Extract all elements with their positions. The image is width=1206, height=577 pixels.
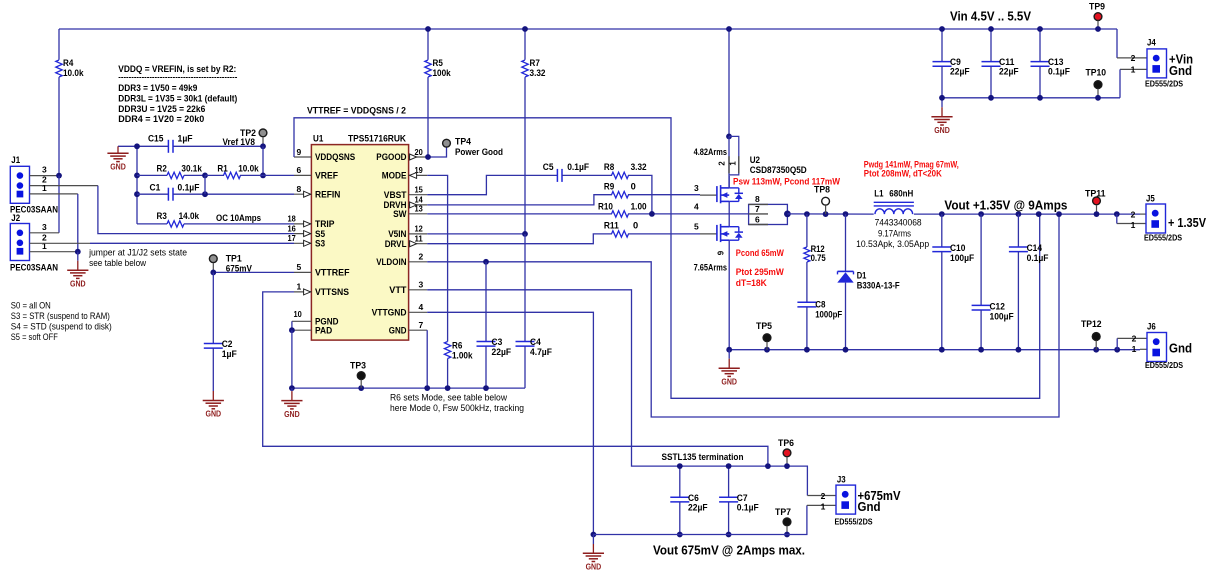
ground [941, 98, 943, 108]
svg-text:1: 1 [1132, 344, 1137, 354]
resistor R7 [524, 29, 526, 60]
wire: Vin to J4 [1116, 29, 1118, 58]
svg-text:DDR3L = 1V35 = 30k1 (default): DDR3L = 1V35 = 30k1 (default) [118, 93, 237, 103]
svg-text:2: 2 [419, 252, 424, 262]
svg-text:R7: R7 [530, 58, 540, 68]
svg-text:1.00: 1.00 [631, 201, 647, 211]
wire: power gnd rail [729, 349, 1140, 351]
svg-text:8: 8 [297, 184, 302, 194]
svg-text:3: 3 [419, 280, 424, 290]
ground [77, 252, 79, 261]
svg-text:0.1µF: 0.1µF [737, 503, 759, 513]
svg-text:Vref 1V8: Vref 1V8 [223, 137, 256, 147]
svg-text:TP6: TP6 [778, 438, 794, 448]
resistor R12 [806, 214, 808, 247]
svg-text:C6: C6 [688, 493, 699, 503]
svg-text:J6: J6 [1147, 322, 1156, 332]
U1 pin 12 V5IN [409, 233, 428, 235]
svg-text:C5: C5 [543, 162, 554, 172]
capacitor C5 [556, 169, 558, 182]
svg-text:1.00k: 1.00k [452, 350, 473, 360]
svg-text:0: 0 [631, 182, 636, 192]
svg-text:0.1µF: 0.1µF [1027, 253, 1049, 263]
U1 pin 11 DRVL [409, 243, 428, 245]
svg-text:dT=18K: dT=18K [736, 278, 768, 288]
svg-text:+ 1.35V: + 1.35V [1168, 215, 1206, 230]
U2 SW pins 8/7/6 box [749, 204, 788, 224]
svg-text:2: 2 [821, 491, 826, 501]
svg-text:6: 6 [297, 165, 302, 175]
svg-text:jumper at J1/J2 sets state: jumper at J1/J2 sets state [88, 247, 187, 257]
svg-text:R3: R3 [157, 211, 167, 221]
wire: U1 analog gnd rail [292, 330, 525, 388]
svg-text:9: 9 [717, 250, 726, 255]
svg-text:C10: C10 [950, 243, 965, 253]
svg-text:14.0k: 14.0k [179, 211, 200, 221]
wire: J4 pin1 to gnd rail [1120, 68, 1147, 70]
svg-text:U1: U1 [313, 134, 323, 144]
svg-text:3: 3 [42, 165, 47, 175]
svg-text:S5 = soft OFF: S5 = soft OFF [11, 332, 58, 342]
resistor R4 [58, 29, 60, 60]
wire: PGOOD to TP4 [427, 147, 446, 157]
wire: GND pin 7 drop [426, 330, 428, 388]
svg-text:15: 15 [415, 185, 424, 195]
svg-text:GND: GND [721, 377, 737, 386]
svg-text:DRVL: DRVL [385, 239, 407, 249]
svg-text:TP9: TP9 [1089, 2, 1105, 12]
svg-text:4: 4 [419, 302, 424, 312]
svg-text:VBST: VBST [384, 190, 407, 200]
svg-text:1µF: 1µF [222, 349, 237, 359]
svg-text:100µF: 100µF [990, 311, 1014, 321]
svg-text:4: 4 [694, 202, 699, 212]
transistor Q-low of U2 [700, 233, 718, 235]
resistor R2 [137, 174, 167, 176]
svg-text:B330A-13-F: B330A-13-F [857, 281, 901, 291]
svg-text:J2: J2 [11, 213, 20, 223]
svg-text:VDDQSNS: VDDQSNS [315, 152, 355, 162]
svg-text:VREF: VREF [315, 171, 338, 181]
svg-text:1µF: 1µF [178, 134, 193, 144]
svg-text:C7: C7 [737, 493, 748, 503]
svg-text:10: 10 [294, 309, 303, 319]
capacitor C14 [1017, 214, 1019, 247]
U1 pin 5 VTTREF [294, 271, 311, 273]
svg-text:R2: R2 [157, 164, 167, 174]
svg-text:C13: C13 [1048, 57, 1063, 67]
connector J5 [1117, 223, 1146, 225]
svg-text:7443340068: 7443340068 [875, 218, 922, 228]
svg-text:TP1: TP1 [226, 254, 242, 264]
svg-text:22µF: 22µF [492, 347, 512, 357]
svg-text:OC 10Amps: OC 10Amps [216, 213, 261, 223]
svg-text:C4: C4 [530, 337, 542, 347]
svg-text:TRIP: TRIP [315, 219, 335, 229]
wire: Vin gnd return rail [942, 97, 1120, 99]
svg-text:VTTREF: VTTREF [315, 268, 350, 278]
resistor R10 [612, 211, 629, 217]
test point TP3 [357, 372, 365, 380]
svg-text:C11: C11 [999, 57, 1014, 67]
svg-text:GND: GND [70, 279, 86, 288]
svg-text:16: 16 [288, 223, 297, 233]
svg-text:V5IN: V5IN [388, 229, 407, 239]
wire: J2 pin1 to gnd [30, 251, 78, 253]
wire: VTTSNS sense [263, 292, 768, 466]
svg-text:0.1µF: 0.1µF [178, 183, 200, 193]
svg-text:C9: C9 [950, 57, 961, 67]
svg-text:R8: R8 [604, 162, 614, 172]
ground [291, 388, 293, 391]
resistor R6 [444, 342, 450, 359]
svg-text:5: 5 [297, 262, 302, 272]
capacitor C1 [137, 193, 168, 195]
svg-text:REFIN: REFIN [315, 189, 341, 199]
svg-text:VTT: VTT [389, 285, 407, 295]
svg-text:R11: R11 [604, 221, 619, 231]
ground [728, 350, 730, 359]
svg-text:17: 17 [288, 233, 297, 243]
svg-text:here Mode 0, Fsw 500kHz, track: here Mode 0, Fsw 500kHz, tracking [390, 403, 524, 413]
svg-text:10.53Apk, 3.05App: 10.53Apk, 3.05App [856, 239, 929, 249]
svg-text:22µF: 22µF [999, 67, 1019, 77]
U1 pin 18 TRIP [294, 223, 311, 225]
capacitor C3 [485, 262, 487, 342]
svg-text:2: 2 [1132, 334, 1137, 344]
svg-text:TP5: TP5 [756, 321, 772, 331]
U1 pin 20 PGOOD [409, 156, 428, 158]
svg-text:9: 9 [297, 147, 302, 157]
svg-text:C14: C14 [1027, 243, 1043, 253]
svg-text:TP10: TP10 [1086, 68, 1107, 78]
svg-text:Gnd: Gnd [1169, 341, 1192, 356]
capacitor C4 [524, 234, 526, 342]
wire: VDDQSNS sense loop [294, 118, 1040, 399]
U1 pin 15 VBST [409, 194, 428, 196]
svg-text:1000pF: 1000pF [815, 309, 843, 319]
svg-text:R6 sets Mode, see table below: R6 sets Mode, see table below [390, 393, 507, 403]
resistor R3 [137, 223, 167, 225]
svg-text:1: 1 [1131, 220, 1136, 230]
svg-text:Gnd: Gnd [1169, 63, 1192, 78]
capacitor C12 [980, 214, 982, 305]
node REFIN bus [136, 146, 138, 224]
svg-text:GND: GND [284, 410, 300, 419]
svg-text:R10: R10 [598, 201, 613, 211]
wire: termination gnd rail [593, 505, 807, 534]
svg-text:R4: R4 [63, 58, 74, 68]
svg-text:ED555/2DS: ED555/2DS [1144, 234, 1183, 243]
svg-text:U2: U2 [750, 155, 760, 165]
svg-text:TP7: TP7 [775, 507, 791, 517]
svg-text:GND: GND [389, 325, 407, 335]
svg-text:L1: L1 [874, 189, 883, 199]
svg-text:2: 2 [1131, 210, 1136, 220]
svg-text:Vin 4.5V .. 5.5V: Vin 4.5V .. 5.5V [950, 9, 1031, 24]
transistor Q-high of U2 [700, 194, 718, 196]
resistor R8 [612, 172, 629, 178]
wire: J1 pin2 to S5 [30, 185, 98, 187]
svg-text:J5: J5 [1146, 194, 1155, 204]
wire: J2 pin2 to S3 [30, 242, 91, 244]
svg-text:Gnd: Gnd [858, 499, 881, 514]
U1 pin 1 VTTSNS [294, 291, 311, 293]
svg-text:Ptot 208mW, dT<20K: Ptot 208mW, dT<20K [864, 169, 943, 179]
capacitor C7 [728, 466, 730, 497]
svg-text:PAD: PAD [315, 325, 332, 335]
U1 PGND/PAD stubs [292, 320, 312, 322]
svg-text:C3: C3 [492, 337, 503, 347]
svg-text:0.1µF: 0.1µF [1048, 67, 1070, 77]
svg-text:100µF: 100µF [950, 253, 974, 263]
wire: VREF to pin 6 [263, 174, 294, 176]
svg-text:C1: C1 [150, 183, 161, 193]
capacitor C13 [1039, 29, 1041, 62]
svg-text:7.65Arms: 7.65Arms [694, 263, 727, 273]
svg-text:J4: J4 [1147, 38, 1157, 48]
svg-text:GND: GND [206, 410, 222, 419]
wire: SW node [427, 213, 612, 215]
capacitor C15 [167, 140, 169, 153]
junction dots 5V rail [425, 26, 431, 32]
svg-text:13: 13 [415, 204, 424, 214]
svg-text:C8: C8 [815, 300, 825, 310]
svg-text:GND: GND [934, 126, 950, 135]
wire: 5V input top rail [59, 28, 1117, 30]
wire: SW to L1 [787, 213, 873, 215]
svg-text:TP12: TP12 [1081, 319, 1102, 329]
U1 pin 6 VREF [294, 174, 311, 176]
svg-text:C15: C15 [148, 134, 163, 144]
svg-text:TPS51716RUK: TPS51716RUK [348, 134, 406, 144]
svg-text:Ptot 295mW: Ptot 295mW [736, 267, 785, 277]
svg-text:11: 11 [415, 234, 424, 244]
svg-text:3.32: 3.32 [530, 68, 546, 78]
svg-text:PGOOD: PGOOD [376, 152, 406, 162]
svg-text:30.1k: 30.1k [181, 164, 202, 174]
wire: DRVH to R9 [427, 195, 612, 205]
U1 pin 4 VTTGND [409, 311, 428, 313]
svg-text:J3: J3 [837, 475, 846, 485]
svg-text:0.1µF: 0.1µF [567, 162, 589, 172]
svg-text:Vout +1.35V @ 9Amps: Vout +1.35V @ 9Amps [944, 198, 1067, 213]
connector J6 [1117, 337, 1147, 339]
svg-text:TP8: TP8 [814, 185, 830, 195]
svg-text:ED555/2DS: ED555/2DS [1145, 361, 1184, 370]
wire: J1 pin3 to R4 column [30, 175, 60, 177]
svg-text:GND: GND [586, 563, 602, 572]
wire: C15 row [118, 145, 168, 147]
svg-text:1: 1 [297, 282, 302, 292]
capacitor C2 [212, 272, 214, 343]
ground [212, 391, 214, 401]
svg-text:SW: SW [393, 209, 407, 219]
capacitor C8 [797, 301, 816, 303]
U1 pin 13 SW [409, 213, 428, 215]
svg-text:12: 12 [415, 224, 424, 234]
capacitor C11 [990, 29, 992, 62]
op-amp U1 TPS51716RUK body [311, 145, 408, 341]
svg-text:4.82Arms: 4.82Arms [694, 147, 727, 157]
U1 pin 2 VLDOIN [409, 261, 428, 263]
svg-text:1: 1 [728, 161, 737, 166]
svg-text:3.32: 3.32 [631, 162, 647, 172]
svg-text:0: 0 [633, 221, 638, 231]
svg-text:680nH: 680nH [889, 189, 913, 199]
svg-text:VTTGND: VTTGND [372, 308, 407, 318]
svg-text:ED555/2DS: ED555/2DS [835, 518, 874, 527]
wire: V5IN [427, 233, 525, 235]
svg-text:S5: S5 [315, 229, 325, 239]
svg-text:R1: R1 [217, 164, 227, 174]
svg-text:3: 3 [42, 222, 47, 232]
svg-text:1: 1 [42, 241, 47, 251]
svg-text:S3 = STR (suspend to RAM): S3 = STR (suspend to RAM) [11, 311, 110, 321]
wire: J1 pin1 to jumper gnd [30, 193, 78, 195]
test point TP4 [443, 139, 451, 147]
U1 pin 7 GND [409, 329, 428, 331]
svg-text:7: 7 [755, 204, 760, 214]
svg-text:GND: GND [110, 163, 126, 172]
svg-text:10.0k: 10.0k [63, 68, 84, 78]
svg-text:ED555/2DS: ED555/2DS [1145, 80, 1184, 89]
svg-text:SSTL135 termination: SSTL135 termination [662, 452, 744, 462]
wire: VLDOIN feed [427, 214, 1059, 417]
svg-text:Power Good: Power Good [455, 147, 503, 157]
svg-text:Pcond 65mW: Pcond 65mW [736, 248, 785, 258]
wire: MODE to R6 [427, 175, 447, 341]
diode D1 B330A-13-F [845, 214, 847, 271]
svg-text:MODE: MODE [382, 171, 407, 181]
svg-text:------------------------------: ----------------------------------------… [118, 73, 237, 82]
transistor U2 CSD87350Q5D top pins [726, 134, 732, 140]
svg-text:DDR3U = 1V25 = 22k6: DDR3U = 1V25 = 22k6 [118, 104, 205, 114]
svg-text:C12: C12 [990, 302, 1005, 312]
U1 pin 19 MODE [409, 174, 428, 176]
svg-text:6: 6 [755, 214, 760, 224]
svg-text:J1: J1 [11, 155, 20, 165]
svg-text:0.75: 0.75 [811, 253, 826, 263]
svg-text:VTTSNS: VTTSNS [315, 287, 349, 297]
U1 pin 14 DRVH [409, 204, 428, 206]
svg-text:4.7µF: 4.7µF [530, 347, 552, 357]
resistor R9 [612, 192, 629, 198]
capacitor C6 [679, 466, 681, 497]
svg-text:CSD87350Q5D: CSD87350Q5D [750, 165, 807, 175]
svg-text:VTTREF = VDDQSNS / 2: VTTREF = VDDQSNS / 2 [307, 106, 406, 116]
svg-text:DDR3 = 1V50 = 49k9: DDR3 = 1V50 = 49k9 [118, 83, 197, 93]
svg-text:100k: 100k [433, 68, 452, 78]
svg-text:9.17Arms: 9.17Arms [878, 229, 911, 239]
wire: VTT out [427, 290, 807, 496]
U1 pin 17 S3 [294, 242, 311, 244]
resistor R1 [202, 173, 208, 179]
wire: DRVL to R11 [427, 234, 612, 244]
svg-text:2: 2 [1131, 53, 1136, 63]
svg-text:TP3: TP3 [350, 361, 366, 371]
svg-text:5: 5 [694, 222, 699, 232]
wire: R4 column to J2 pin3 [58, 176, 60, 233]
svg-text:S3: S3 [315, 239, 325, 249]
svg-text:22µF: 22µF [688, 503, 708, 513]
svg-text:8: 8 [755, 194, 760, 204]
svg-text:Vout 675mV @ 2Amps max.: Vout 675mV @ 2Amps max. [653, 543, 805, 558]
resistor R11 [612, 231, 629, 237]
ground [117, 146, 119, 153]
svg-text:22µF: 22µF [950, 67, 970, 77]
svg-text:1: 1 [1131, 65, 1136, 75]
svg-text:S4 = STD (suspend to disk): S4 = STD (suspend to disk) [11, 322, 112, 332]
svg-text:R9: R9 [604, 182, 614, 192]
wire: U2 drain feed [728, 29, 730, 136]
svg-text:S0 = all ON: S0 = all ON [11, 301, 51, 311]
capacitor C9 [941, 29, 943, 62]
svg-text:R5: R5 [433, 58, 443, 68]
svg-text:18: 18 [288, 214, 297, 224]
resistor R5 [427, 29, 429, 60]
U1 pin 16 S5 [294, 233, 311, 235]
wire: VTTREF [213, 271, 294, 273]
svg-text:2: 2 [718, 161, 727, 166]
svg-text:D1: D1 [857, 271, 867, 281]
wire: VBST to C5 [427, 175, 557, 194]
svg-text:DDR4 = 1V20 = 20k0: DDR4 = 1V20 = 20k0 [118, 114, 204, 124]
svg-text:R6: R6 [452, 341, 462, 351]
svg-text:20: 20 [415, 147, 424, 157]
U1 pin 9 VDDQSNS [294, 156, 311, 158]
U1 pin 3 VTT [409, 289, 428, 291]
svg-text:see table below: see table below [89, 258, 146, 268]
svg-text:C2: C2 [222, 339, 233, 349]
svg-text:VLDOIN: VLDOIN [376, 257, 407, 267]
capacitor C10 [941, 214, 943, 247]
svg-text:PEC03SAAN: PEC03SAAN [10, 263, 58, 273]
svg-text:7: 7 [419, 320, 424, 330]
U1 pin 8 REFIN [294, 193, 311, 195]
wire: Vout rail [914, 213, 1140, 215]
svg-text:3: 3 [694, 183, 699, 193]
svg-text:10.0k: 10.0k [238, 164, 259, 174]
ground [591, 532, 597, 538]
wire: VTTGND return [427, 312, 593, 534]
svg-text:1: 1 [42, 183, 47, 193]
svg-text:1: 1 [821, 502, 826, 512]
svg-text:TP4: TP4 [455, 137, 472, 147]
